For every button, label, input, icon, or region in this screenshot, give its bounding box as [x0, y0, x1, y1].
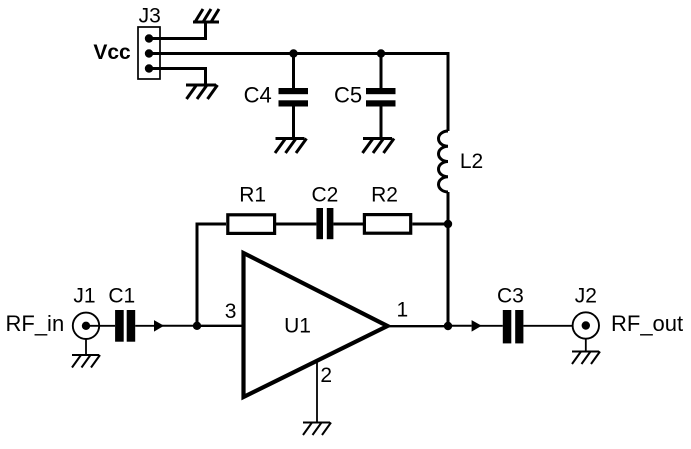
wire arrow to input node	[160, 325, 197, 327]
wire J1 to C1	[90, 325, 115, 327]
wire op-amp output to node	[387, 325, 448, 327]
node feedback-right junction	[444, 220, 452, 228]
ground (J2)	[572, 352, 600, 365]
capacitor C3	[497, 285, 524, 344]
svg-text:1: 1	[397, 299, 409, 322]
svg-text:J1: J1	[73, 285, 95, 308]
signal flow arrow (input)	[154, 320, 164, 332]
ground (pin 2)	[303, 423, 331, 436]
connector J1	[73, 285, 99, 339]
inductor L2	[439, 131, 484, 192]
svg-text:Vcc: Vcc	[93, 41, 131, 64]
svg-text:RF_out: RF_out	[611, 311, 683, 336]
node input junction	[193, 322, 201, 330]
signal flow arrow (output)	[472, 320, 482, 332]
connector J2	[573, 285, 599, 339]
wire Vcc rail	[149, 54, 448, 132]
ground (C5)	[363, 139, 395, 154]
wire C2 to R2	[333, 223, 364, 226]
capacitor C5	[334, 54, 395, 139]
svg-text:L2: L2	[460, 150, 483, 173]
capacitor C1	[108, 285, 135, 342]
wire C3 to J2	[523, 325, 572, 327]
node C5 tap	[377, 49, 385, 57]
wire J1 ground stem	[85, 339, 87, 355]
svg-text:U1: U1	[284, 314, 311, 337]
svg-text:R1: R1	[239, 184, 266, 207]
wire R2 to rail junction	[412, 223, 448, 226]
wire R1 to C2	[276, 223, 316, 226]
node C4 tap	[289, 49, 297, 57]
wire J3 pin3 to ground	[149, 69, 206, 86]
svg-text:C4: C4	[244, 83, 272, 108]
svg-text:R2: R2	[371, 184, 398, 207]
node output junction	[444, 322, 452, 330]
resistor R1	[228, 184, 275, 234]
op-amp U1	[244, 253, 388, 397]
ground (J1)	[72, 355, 100, 368]
ground (C4)	[275, 139, 307, 154]
svg-text:RF_in: RF_in	[6, 311, 65, 336]
svg-text:C3: C3	[497, 285, 524, 308]
wire C1 to arrow	[135, 325, 154, 327]
capacitor C4	[244, 54, 308, 139]
ground (J3 bottom)	[186, 85, 218, 99]
wire arrow to C3	[478, 325, 503, 327]
wire J2 ground stem	[585, 339, 587, 352]
wire feedback left vertical	[197, 224, 226, 326]
svg-text:C5: C5	[334, 83, 362, 108]
svg-text:C2: C2	[311, 184, 338, 207]
wire op-amp pin2 stem	[316, 362, 318, 423]
svg-text:3: 3	[225, 300, 237, 323]
svg-text:J2: J2	[575, 285, 597, 308]
connector J3	[138, 5, 161, 79]
wire J3 pin1 to top ground	[149, 22, 206, 39]
capacitor C2	[311, 184, 338, 240]
resistor R2	[364, 184, 410, 234]
wire L2 to output node	[447, 192, 450, 326]
wire input node to op-amp pin3	[197, 325, 244, 327]
svg-text:J3: J3	[139, 5, 161, 28]
wire output node to arrow	[448, 325, 472, 327]
ground (top, inverted)	[193, 9, 219, 22]
svg-text:2: 2	[320, 364, 332, 387]
svg-text:C1: C1	[108, 285, 135, 308]
